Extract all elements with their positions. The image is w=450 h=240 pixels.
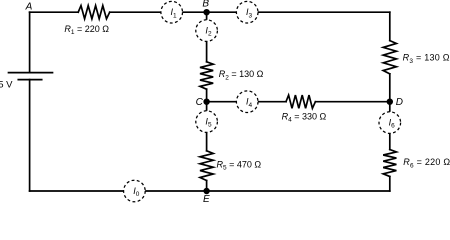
wire R3 to node D [389, 74, 391, 102]
battery B1 long positive plate [9, 72, 53, 74]
svg-text:E: E [203, 194, 210, 203]
resistor R5 [200, 151, 213, 181]
svg-text:D: D [396, 97, 403, 108]
wire node C to R4 [207, 101, 286, 103]
wire left branch lower (battery down to bottom rail) [29, 80, 31, 191]
svg-text:C: C [196, 97, 204, 108]
resistor R6 [383, 150, 396, 177]
resistor R2 [200, 62, 213, 89]
svg-text:R6 = 220 Ω: R6 = 220 Ω [403, 157, 450, 169]
wire R6 to bottom-right corner [389, 177, 391, 192]
wire R2 to node C [206, 89, 208, 102]
resistor R3 [383, 41, 396, 74]
current probe I5 [196, 111, 218, 133]
svg-text:A: A [25, 2, 33, 13]
wire R5 to node E [206, 181, 208, 192]
resistor R4 [286, 95, 315, 108]
node E junction dot [203, 188, 209, 194]
svg-text:R2 = 130 Ω: R2 = 130 Ω [219, 69, 264, 81]
current probe I0 [124, 180, 146, 202]
current probe I6 [379, 112, 401, 134]
wire bottom rail [30, 190, 390, 192]
current probe I4 [236, 91, 258, 113]
svg-text:R3 = 130 Ω: R3 = 130 Ω [403, 53, 450, 65]
wire node C down to R5 [206, 102, 208, 151]
node B junction dot [203, 9, 209, 15]
svg-text:R1 = 220 Ω: R1 = 220 Ω [64, 24, 109, 36]
node D junction dot [387, 99, 393, 105]
wire node B to top-right corner [207, 11, 390, 13]
wire right branch top corner down to R3 [389, 12, 391, 40]
node C junction dot [203, 99, 209, 105]
current probe I3 [236, 1, 258, 23]
wire node D down to R6 [389, 102, 391, 150]
wire R4 to node D [315, 101, 389, 103]
svg-text:B: B [202, 0, 209, 9]
current probe I2 [196, 20, 218, 42]
svg-text:5 V: 5 V [0, 80, 13, 91]
svg-text:R4 = 330 Ω: R4 = 330 Ω [282, 112, 327, 124]
wire left branch upper (A down to battery) [29, 12, 31, 72]
wire node B down to R2 [206, 12, 208, 62]
svg-text:R5 = 470 Ω: R5 = 470 Ω [217, 159, 262, 171]
wire R1 to node B [110, 11, 207, 13]
wire top-left A to R1 [30, 11, 79, 13]
battery B1 short negative plate [18, 79, 41, 81]
current probe I1 [161, 1, 183, 23]
resistor R1 [78, 6, 110, 19]
